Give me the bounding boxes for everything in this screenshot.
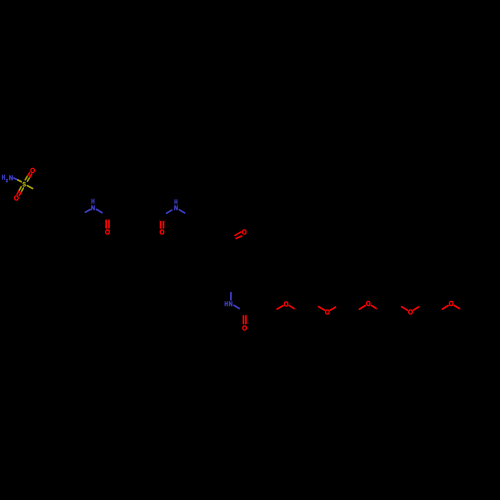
svg-text:O: O xyxy=(242,324,247,333)
bond C-N3 vertical (blue half) xyxy=(230,293,232,300)
svg-text:O: O xyxy=(242,228,247,237)
bond O3-C13 (red half) xyxy=(371,305,377,309)
svg-text:O: O xyxy=(366,299,371,308)
svg-text:H: H xyxy=(2,174,6,181)
wire amide3 C6 to PEG C7 C8 (invisible) xyxy=(239,304,277,312)
S=O upper double bond (red halves) xyxy=(28,173,32,178)
wire C15-C16 (invisible) xyxy=(419,304,442,312)
wire C17-C18 terminal (invisible) xyxy=(460,304,479,312)
bond O2-C11 (red half) xyxy=(331,307,337,311)
amide3 C=O carbon halves (invisible) xyxy=(243,312,246,316)
svg-text:O: O xyxy=(30,166,35,175)
bond C16-O5 (red half) xyxy=(442,306,448,310)
bond N-S (blue half) xyxy=(14,178,18,180)
bond C8-O1 (red half) xyxy=(277,306,283,310)
bond O5-C17 (red half) xyxy=(454,306,460,310)
wire C9-C10 (invisible) xyxy=(295,304,319,312)
bond N1-C1 (blue half) xyxy=(97,209,103,212)
bond N2-ringB (blue half) xyxy=(179,210,184,213)
amide1 C=O double bond (red halves) xyxy=(106,220,109,228)
S=O lower double bond (olive halves) xyxy=(19,187,24,192)
label H2N amine xyxy=(2,174,13,184)
bond C12-O3 (red half) xyxy=(359,306,365,310)
svg-text:O: O xyxy=(14,194,19,203)
svg-text:2: 2 xyxy=(6,178,8,184)
bond C14-O4 (red half) xyxy=(402,307,408,311)
bond O1-C9 (red half) xyxy=(289,306,295,310)
bond N-S (sulfur half) xyxy=(18,180,21,182)
bond N3-C6 (blue half) xyxy=(234,305,239,308)
bond C10-O2 (red half) xyxy=(319,307,325,311)
bond O4-C15 (red half) xyxy=(413,307,419,311)
bond N1 to benzylic C (blue half) xyxy=(85,210,90,213)
S=O lower double bond (red halves) xyxy=(17,191,21,195)
amide1 C=O carbon halves (invisible) xyxy=(106,217,109,221)
svg-text:H: H xyxy=(225,301,229,308)
svg-text:N: N xyxy=(229,301,233,308)
wire C13-C14 (invisible) xyxy=(377,304,402,312)
svg-text:O: O xyxy=(449,299,454,308)
svg-text:O: O xyxy=(105,227,110,236)
svg-text:O: O xyxy=(284,299,289,308)
S=O upper double bond (olive halves) xyxy=(25,176,30,182)
svg-text:N: N xyxy=(174,205,178,212)
svg-text:N: N xyxy=(9,175,13,182)
benzene ring B (invisible) xyxy=(184,208,231,240)
svg-text:S: S xyxy=(22,181,26,188)
benzene ring A (carbon skeleton, invisible on black) xyxy=(38,183,66,214)
wire C11-C12 (invisible) xyxy=(336,304,359,312)
svg-text:N: N xyxy=(91,205,95,212)
bond S-ring A (olive half) xyxy=(27,186,32,189)
wire glutaryl chain C1-C5 (invisible) xyxy=(101,208,167,216)
svg-text:O: O xyxy=(160,228,165,237)
ketone C=O double bond (red halves) xyxy=(235,232,242,239)
wire ring A to N1 (carbon half, invisible) xyxy=(66,206,85,213)
svg-text:O: O xyxy=(408,308,413,317)
wire ketone C down to amide3 C-N (invisible) xyxy=(230,240,232,293)
amide2 C=O double bond (red halves) xyxy=(161,220,164,228)
bond N2-C5 (blue half) xyxy=(167,210,172,213)
amide2 C=O carbon halves (invisible) xyxy=(161,217,164,221)
svg-text:O: O xyxy=(325,308,330,317)
amide3 C=O double bond (red halves) xyxy=(243,316,246,324)
